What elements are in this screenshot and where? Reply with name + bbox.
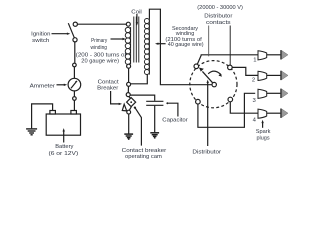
- secondary winding: [144, 19, 149, 75]
- leader distributor: [207, 80, 209, 146]
- primary winding: [125, 27, 130, 64]
- ignition switch: [68, 22, 77, 42]
- wire primary bottom: [128, 68, 130, 83]
- svg-text:Distributor: Distributor: [192, 150, 221, 156]
- coil core: [134, 17, 139, 63]
- node junction secondary/primary: [127, 82, 131, 86]
- ground capacitor: [150, 133, 159, 138]
- svg-text:40 gauge wire): 40 gauge wire): [168, 42, 204, 48]
- distributor contact R: [228, 97, 233, 102]
- svg-text:Battery: Battery: [55, 144, 73, 150]
- svg-text:20 gauge wire): 20 gauge wire): [81, 59, 119, 65]
- leader coil: [136, 14, 138, 26]
- wire secondary bottom to junction: [130, 75, 147, 84]
- svg-text:Ammeter: Ammeter: [30, 83, 55, 89]
- distributor contact TR: [228, 65, 233, 70]
- svg-text:(20000 - 30000 V): (20000 - 30000 V): [197, 5, 243, 11]
- svg-text:contacts: contacts: [206, 20, 231, 26]
- leader contact breaker: [111, 91, 123, 105]
- leader battery: [63, 128, 65, 142]
- wire battery-to-ground: [32, 104, 53, 128]
- svg-text:4: 4: [253, 117, 257, 123]
- svg-text:switch: switch: [32, 38, 49, 44]
- wire distributor R contact to plug 4: [230, 102, 258, 114]
- wire switch-to-ammeter: [74, 42, 76, 64]
- capacitor C: [146, 101, 163, 105]
- svg-text:Primary: Primary: [91, 38, 107, 44]
- leader distributor contacts right: [229, 26, 231, 66]
- coil primary top terminal: [126, 22, 130, 26]
- wire ammeter-to-battery: [73, 100, 75, 110]
- leader spark plugs: [261, 120, 263, 128]
- distributor contact TL: [194, 64, 199, 69]
- leader ignition switch: [52, 33, 71, 35]
- wire distributor TR contact to plug 2: [232, 67, 258, 75]
- spark plug 2: [258, 71, 288, 81]
- svg-text:1: 1: [253, 57, 256, 63]
- ground battery: [26, 129, 37, 135]
- distributor dashed circle: [190, 61, 237, 108]
- distributor contact BL: [196, 99, 201, 104]
- battery: [46, 111, 80, 136]
- distributor rotor center: [212, 82, 216, 86]
- wire switch-to-coil top: [77, 23, 127, 25]
- svg-text:plugs: plugs: [257, 135, 270, 141]
- svg-text:Contact: Contact: [98, 80, 119, 86]
- wire breaker-to-ground: [128, 114, 130, 134]
- leader secondary winding: [155, 43, 166, 45]
- wire distributor TL contact to plug 1: [197, 55, 258, 65]
- svg-text:Spark: Spark: [256, 129, 271, 135]
- svg-text:Capacitor: Capacitor: [162, 118, 187, 124]
- spark plug 4: [258, 109, 288, 119]
- svg-text:operating cam: operating cam: [125, 154, 162, 160]
- wire ammeter top lead: [73, 67, 75, 79]
- svg-text:Ignition: Ignition: [31, 31, 50, 37]
- ground contact breaker: [124, 134, 133, 139]
- leader ammeter: [57, 84, 68, 86]
- wire secondary top to distributor rotor: [149, 9, 212, 85]
- svg-text:Breaker: Breaker: [97, 86, 118, 92]
- wire capacitor-to-ground: [154, 106, 156, 133]
- contact breaker: [122, 93, 136, 114]
- svg-text:Coil: Coil: [131, 9, 142, 15]
- distributor rotor arm: [202, 71, 213, 83]
- coil primary bottom terminal: [127, 64, 131, 68]
- svg-text:(6 or 12V): (6 or 12V): [49, 151, 79, 157]
- wire ammeter bottom lead: [73, 91, 75, 97]
- ammeter: [68, 63, 81, 100]
- svg-text:2: 2: [252, 77, 255, 83]
- svg-text:Contact breaker: Contact breaker: [122, 148, 167, 154]
- distributor rotation arrow: [208, 71, 221, 75]
- svg-text:winding: winding: [90, 45, 107, 51]
- leader distributor contacts left: [208, 26, 210, 57]
- leader primary winding: [111, 38, 126, 40]
- svg-text:3: 3: [252, 98, 256, 104]
- wire distributor BL contact to plug 3: [198, 93, 255, 127]
- svg-text:Distributor: Distributor: [204, 14, 232, 20]
- spark plug 3: [258, 89, 288, 99]
- spark plug 1: [258, 50, 288, 60]
- leader capacitor: [166, 102, 178, 116]
- wire breaker-to-capacitor: [130, 95, 155, 101]
- leader contact breaker operating cam: [135, 108, 142, 146]
- wire junction-to-breaker: [127, 86, 129, 93]
